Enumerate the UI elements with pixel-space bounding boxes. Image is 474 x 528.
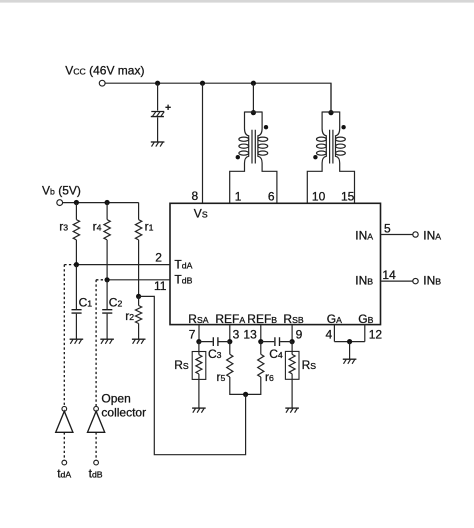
- svg-text:INA: INA: [355, 228, 373, 242]
- svg-text:3: 3: [233, 327, 240, 341]
- node Vcc-T1 junction: [251, 81, 256, 86]
- wire pin 5: [381, 234, 413, 236]
- resistor r3: [73, 203, 79, 265]
- svg-text:9: 9: [296, 327, 303, 341]
- svg-text:REFA: REFA: [215, 312, 245, 326]
- node r5-r6 junction: [243, 392, 248, 397]
- node pin2-r3 junction: [74, 262, 79, 267]
- wire pin 12: [364, 325, 366, 342]
- svg-text:4: 4: [326, 327, 333, 341]
- wire Vcc rail: [105, 83, 331, 112]
- resistor r1: [135, 203, 141, 297]
- resistor Rs (B side): [285, 342, 299, 408]
- wire pin 13: [260, 325, 262, 342]
- svg-text:INB: INB: [423, 274, 441, 288]
- ground (Rs B): [285, 408, 299, 413]
- wire pin 8: [202, 83, 204, 203]
- resistor Rs (A side): [192, 342, 206, 408]
- top gray page edge: [0, 0, 474, 3]
- svg-text:C1: C1: [79, 296, 93, 310]
- svg-text:10: 10: [312, 190, 326, 204]
- svg-text:VS: VS: [194, 206, 208, 220]
- svg-text:GB: GB: [358, 312, 373, 326]
- svg-text:12: 12: [369, 327, 383, 341]
- wire pin 14: [381, 280, 413, 282]
- node r1-r2 junction: [136, 294, 141, 299]
- wire Vb rail: [63, 202, 139, 204]
- node pin9 junction: [290, 339, 295, 344]
- inverter A (open collector): [56, 406, 73, 465]
- wire pin 4: [333, 325, 335, 342]
- terminal Vb: [57, 200, 63, 206]
- svg-text:r1: r1: [145, 219, 154, 233]
- terminal Vcc: [99, 80, 105, 86]
- ground (Vcc bypass cap): [151, 142, 165, 147]
- svg-text:C3: C3: [208, 347, 222, 361]
- svg-text:8: 8: [192, 189, 199, 203]
- wire GA-GB ground stub: [349, 342, 351, 359]
- ground (GA-GB): [343, 359, 357, 364]
- capacitor C4: [261, 337, 292, 346]
- svg-text:tdB: tdB: [89, 467, 103, 481]
- svg-text:11: 11: [154, 279, 167, 293]
- svg-text:VCC (46V max): VCC (46V max): [65, 64, 144, 78]
- wire pin 3: [229, 325, 231, 342]
- node Vcc-cap junction: [155, 81, 160, 86]
- capacitor C3: [199, 337, 230, 346]
- svg-text:RS: RS: [302, 358, 317, 372]
- resistor r2: [136, 296, 142, 339]
- dashed wire to inverter B: [96, 280, 105, 407]
- node GA-GB junction: [347, 339, 352, 344]
- wire pin 9: [291, 325, 293, 342]
- node Vb-r4 junction: [105, 200, 110, 205]
- wire cap branch: [157, 83, 159, 142]
- capacitor C1: [72, 265, 82, 339]
- capacitor C2: [102, 280, 112, 339]
- resistor r5: [227, 342, 246, 395]
- svg-text:7: 7: [189, 327, 196, 341]
- svg-text:15: 15: [341, 190, 355, 204]
- svg-text:14: 14: [382, 268, 396, 282]
- svg-text:collector: collector: [101, 406, 146, 420]
- resistor r6: [246, 342, 264, 395]
- svg-text:r3: r3: [59, 219, 68, 233]
- svg-text:C4: C4: [269, 347, 283, 361]
- svg-text:REFB: REFB: [247, 312, 277, 326]
- resistor r4: [104, 203, 110, 280]
- svg-text:5: 5: [384, 221, 391, 235]
- ground (C1): [70, 339, 84, 344]
- inverter B (open collector): [88, 406, 105, 465]
- dashed wire to inverter A: [64, 265, 74, 407]
- svg-text:r2: r2: [125, 309, 134, 323]
- ground (C2): [100, 339, 114, 344]
- ground (Rs A): [192, 408, 206, 413]
- terminal INA: [413, 232, 418, 237]
- svg-text:tdA: tdA: [57, 467, 71, 481]
- svg-text:6: 6: [268, 190, 275, 204]
- svg-text:1: 1: [235, 190, 242, 204]
- terminal INB: [413, 278, 418, 283]
- svg-text:r6: r6: [265, 370, 274, 384]
- svg-text:INA: INA: [423, 228, 441, 242]
- node Vb-r3 junction: [74, 200, 79, 205]
- svg-text:C2: C2: [109, 296, 123, 310]
- node Vcc-pin8 junction: [200, 81, 205, 86]
- wire feedback to r2: [139, 296, 246, 454]
- wire pin 2 (TdA): [76, 264, 170, 266]
- wire pin 11 (TdB): [107, 279, 170, 281]
- node pin7 junction: [196, 339, 201, 344]
- transformer T2: [307, 83, 354, 203]
- svg-text:GA: GA: [327, 312, 342, 326]
- capacitor electrolytic (Vcc bypass): [151, 105, 171, 117]
- svg-text:Open: Open: [101, 392, 130, 406]
- svg-text:TdA: TdA: [174, 257, 192, 271]
- svg-text:r4: r4: [93, 219, 102, 233]
- svg-text:TdB: TdB: [174, 273, 192, 287]
- svg-text:Vb (5V): Vb (5V): [42, 184, 81, 198]
- svg-text:RS: RS: [174, 358, 189, 372]
- svg-text:13: 13: [243, 327, 257, 341]
- node pin11-r4 junction: [105, 277, 110, 282]
- wire pin 7: [198, 325, 200, 342]
- svg-text:r5: r5: [217, 370, 226, 384]
- svg-text:RSA: RSA: [188, 312, 208, 326]
- node pin3 junction: [227, 339, 232, 344]
- op-amp IC U1 outline: [170, 203, 381, 324]
- node pin13 junction: [258, 339, 263, 344]
- svg-text:2: 2: [155, 250, 162, 264]
- ground (r2): [132, 339, 146, 344]
- transformer T1: [230, 83, 277, 203]
- svg-text:INB: INB: [355, 274, 373, 288]
- svg-text:RSB: RSB: [283, 312, 303, 326]
- wire GA-GB join: [334, 341, 364, 343]
